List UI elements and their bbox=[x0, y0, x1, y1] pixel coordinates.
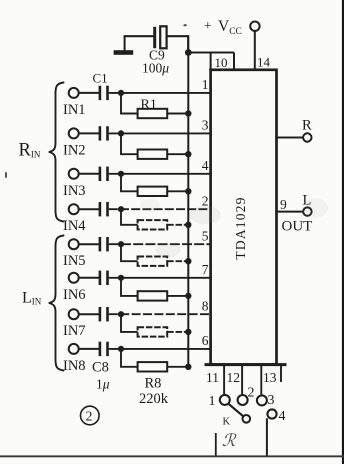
pin 11 stub bbox=[223, 364, 225, 395]
switch wiper K bbox=[228, 404, 243, 417]
scan smudge B bbox=[155, 243, 181, 257]
resistor R7 bbox=[138, 327, 168, 336]
resistor R1 bbox=[138, 109, 168, 118]
wire C6 to pin 7 bbox=[109, 277, 211, 279]
capacitor C6 bbox=[99, 271, 102, 285]
resistor R3 bbox=[138, 187, 168, 196]
svg-text:220k: 220k bbox=[139, 391, 169, 407]
node R6 bus junction bbox=[185, 293, 191, 299]
terminal IN4 bbox=[69, 204, 79, 214]
scan border right bbox=[342, 0, 344, 464]
wire C2 to pin 3 bbox=[109, 132, 211, 134]
svg-text:IN8: IN8 bbox=[63, 358, 86, 374]
terminal L bbox=[303, 207, 311, 215]
wire R8 to bus bbox=[167, 366, 188, 368]
wire IN5 to C5 bbox=[79, 243, 99, 245]
wire node to R3 bbox=[121, 174, 138, 192]
svg-text:IN5: IN5 bbox=[63, 253, 86, 269]
node input 1 bbox=[118, 90, 124, 96]
resistor R5 bbox=[138, 257, 168, 266]
svg-text:TDA1029: TDA1029 bbox=[233, 196, 248, 259]
svg-text:1: 1 bbox=[202, 77, 209, 92]
wire C4 to pin 2 bbox=[109, 208, 211, 210]
svg-text:8: 8 bbox=[202, 298, 209, 313]
wire R5 to bus bbox=[167, 260, 188, 262]
resistor R6 bbox=[138, 291, 168, 300]
capacitor C9 bbox=[153, 27, 156, 48]
resistor R2 bbox=[138, 150, 168, 159]
wire R4 to bus bbox=[167, 224, 188, 226]
node input 8 bbox=[118, 346, 124, 352]
capacitor C3 bbox=[99, 167, 102, 181]
svg-text:C8: C8 bbox=[92, 360, 109, 376]
svg-text:IN1: IN1 bbox=[63, 102, 86, 118]
svg-text:6: 6 bbox=[202, 333, 209, 348]
wire IN4 to C4 bbox=[79, 208, 99, 210]
wire C8 to pin 6 bbox=[109, 348, 211, 350]
scan smudge D bbox=[140, 199, 160, 211]
wire IN1 to C1 bbox=[79, 92, 99, 94]
switch contact 4 bbox=[267, 409, 276, 418]
capacitor C8 bbox=[99, 342, 102, 356]
svg-text:+: + bbox=[204, 18, 212, 33]
capacitor C7 bbox=[99, 307, 102, 321]
wire IN2 to C2 bbox=[79, 132, 99, 134]
wire feedback bus bbox=[187, 53, 189, 367]
svg-text:R1: R1 bbox=[141, 98, 157, 113]
wire stub bottom left bbox=[215, 433, 217, 456]
wire R6 to bus bbox=[167, 295, 188, 297]
wire C7 to pin 8 bbox=[109, 313, 211, 315]
svg-text:IN7: IN7 bbox=[63, 323, 86, 339]
node R4 bus junction bbox=[185, 222, 191, 228]
node input 3 bbox=[118, 171, 124, 177]
wire contact 4 down bbox=[266, 418, 268, 456]
node R8 bus junction bbox=[185, 364, 191, 370]
svg-text:IN2: IN2 bbox=[63, 142, 86, 158]
svg-text:7: 7 bbox=[202, 262, 209, 277]
wire C9 to node bbox=[167, 36, 189, 52]
svg-text:IN6: IN6 bbox=[63, 287, 86, 303]
svg-text:R: R bbox=[302, 118, 312, 134]
svg-text:3: 3 bbox=[202, 118, 209, 133]
terminal IN3 bbox=[69, 169, 79, 179]
wire node to R1 bbox=[121, 93, 138, 114]
node input 4 bbox=[118, 206, 124, 212]
wire R2 to bus bbox=[167, 153, 188, 155]
svg-text:4: 4 bbox=[202, 158, 209, 173]
capacitor C5 bbox=[99, 237, 102, 251]
wire ground to C9 bbox=[124, 35, 154, 37]
wire pin 9 to L output bbox=[277, 211, 304, 213]
svg-text:IN4: IN4 bbox=[63, 218, 86, 234]
svg-text:2: 2 bbox=[86, 409, 93, 424]
wire pin to R output bbox=[277, 137, 304, 139]
svg-text:K: K bbox=[223, 417, 231, 428]
scan smudge C bbox=[302, 198, 328, 218]
node C9/bus junction bbox=[185, 49, 192, 56]
svg-text:14: 14 bbox=[257, 54, 271, 69]
svg-text:10: 10 bbox=[215, 55, 228, 70]
svg-text:11: 11 bbox=[206, 370, 219, 385]
wire node to R7 bbox=[121, 314, 138, 332]
wire C3 to pin 4 bbox=[109, 173, 211, 175]
scan border bottom bbox=[0, 455, 344, 457]
svg-text:4: 4 bbox=[279, 409, 286, 424]
ground bbox=[124, 36, 126, 51]
wire node to pin 10 tab bbox=[188, 52, 234, 54]
terminal IN7 bbox=[69, 309, 79, 319]
terminal R bbox=[303, 133, 311, 141]
switch contact 1 bbox=[220, 395, 230, 405]
svg-text:R8: R8 bbox=[145, 376, 162, 392]
svg-text:2: 2 bbox=[248, 386, 255, 401]
node R5 bus junction bbox=[185, 258, 191, 264]
op-amp U1 TDA1029 box bbox=[211, 70, 277, 365]
svg-text:1: 1 bbox=[209, 394, 216, 409]
pin 13 tab tick bbox=[280, 364, 282, 383]
scan mark left edge bbox=[5, 172, 7, 178]
svg-text:ℛ: ℛ bbox=[222, 431, 237, 450]
brace R-in group bbox=[49, 83, 64, 222]
brace L-in group bbox=[49, 236, 64, 371]
capacitor C1 bbox=[99, 86, 102, 100]
pin 13 stub bbox=[260, 364, 262, 396]
wire node to R4 bbox=[121, 209, 138, 225]
wire IC bottom edge smear bbox=[205, 363, 287, 366]
svg-text:IN3: IN3 bbox=[63, 183, 86, 199]
svg-text:C1: C1 bbox=[93, 71, 108, 86]
svg-text:5: 5 bbox=[202, 228, 209, 243]
capacitor C4 bbox=[99, 202, 102, 216]
svg-text:OUT: OUT bbox=[282, 219, 313, 235]
scan speck near C9 bbox=[183, 24, 186, 26]
svg-text:12: 12 bbox=[227, 370, 241, 385]
pin 12 stub bbox=[241, 364, 243, 396]
svg-text:3: 3 bbox=[268, 393, 275, 408]
wire Vcc to pin 14 bbox=[254, 31, 256, 70]
switch contact 2 bbox=[238, 395, 248, 405]
wire C1 to pin 1 bbox=[109, 92, 211, 94]
wire IN3 to C3 bbox=[79, 173, 99, 175]
wire R7 to bus bbox=[167, 331, 188, 333]
node input 5 bbox=[118, 241, 124, 247]
node input 6 bbox=[118, 275, 124, 281]
wire node to R5 bbox=[121, 244, 138, 261]
svg-text:100μ: 100μ bbox=[142, 61, 169, 76]
switch contact 3 bbox=[257, 395, 267, 405]
terminal IN5 bbox=[69, 239, 79, 249]
scan smudge A bbox=[189, 206, 221, 224]
node R2 bus junction bbox=[185, 151, 191, 157]
wire C5 to pin 5 bbox=[109, 243, 211, 245]
terminal Vcc bbox=[250, 22, 259, 31]
svg-text:1μ: 1μ bbox=[96, 377, 110, 392]
terminal IN8 bbox=[69, 344, 79, 354]
node R1 bus junction bbox=[185, 110, 191, 116]
node input 2 bbox=[118, 130, 124, 136]
wire node to R6 bbox=[121, 278, 138, 296]
wire IN6 to C6 bbox=[79, 277, 99, 279]
wire IN8 to C8 bbox=[79, 348, 99, 350]
pin 10 tab right side bbox=[233, 53, 235, 71]
wire node to R2 bbox=[121, 133, 138, 154]
pin 10 tab left side bbox=[210, 53, 212, 71]
capacitor C2 bbox=[99, 126, 102, 140]
wire R1 to bus bbox=[167, 113, 188, 115]
terminal IN2 bbox=[69, 128, 79, 138]
node input 7 bbox=[118, 311, 124, 317]
wire R3 to bus bbox=[167, 190, 188, 192]
wire IN7 to C7 bbox=[79, 313, 99, 315]
terminal IN6 bbox=[69, 273, 79, 283]
resistor R8 bbox=[138, 362, 168, 371]
wire node to R8 bbox=[121, 349, 138, 367]
svg-text:9: 9 bbox=[280, 197, 287, 212]
node R7 bus junction bbox=[185, 329, 191, 335]
terminal IN1 bbox=[69, 88, 79, 98]
label figure number 2 bbox=[81, 406, 100, 425]
svg-text:13: 13 bbox=[263, 370, 277, 385]
node R3 bus junction bbox=[185, 188, 191, 194]
resistor R4 bbox=[138, 220, 168, 229]
